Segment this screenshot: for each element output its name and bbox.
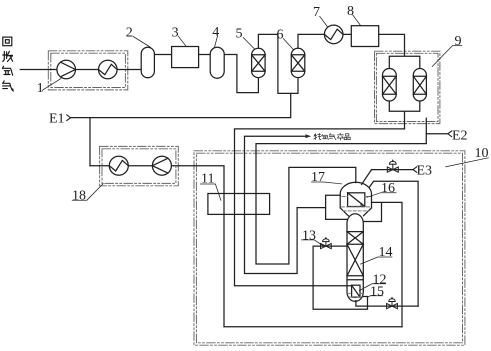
glyph qi(gas) bbox=[3, 81, 13, 91]
glyph shou bbox=[3, 51, 13, 61]
wire: recovered argon inlet to unit 1 and capsule 2 bbox=[20, 69, 141, 71]
liquid level dashes in vessel 17 bbox=[341, 197, 370, 211]
heat exchanger 11 bbox=[208, 194, 270, 215]
glyph ya(argon) bbox=[322, 135, 329, 140]
leader line 8 bbox=[353, 15, 361, 26]
wire: E3 vent from vessel 17 dome bbox=[362, 170, 413, 185]
valve 15 bbox=[387, 298, 398, 309]
glyph qi(gas) bbox=[329, 134, 336, 140]
svg-text:16: 16 bbox=[381, 181, 395, 196]
wire: through unit 18 then down and across bottom of box 10 bbox=[90, 166, 402, 327]
adsorber column right in box 9 bbox=[413, 69, 426, 102]
valve 13 bbox=[321, 238, 332, 249]
leader line 1 bbox=[42, 79, 61, 91]
reboiler insert 12 in column sump bbox=[352, 285, 360, 297]
leader line 5 bbox=[243, 38, 254, 49]
exchanger circle left in unit 18 bbox=[109, 156, 128, 175]
vessel 17 body bbox=[340, 182, 371, 216]
svg-text:17: 17 bbox=[311, 170, 325, 185]
svg-text:7: 7 bbox=[313, 5, 320, 20]
wire: column 5 top over to column 6 bottom bbox=[258, 34, 298, 93]
svg-text:15: 15 bbox=[370, 285, 384, 300]
svg-text:10: 10 bbox=[475, 146, 489, 161]
boundary box 10 (dash-dot double border) bbox=[194, 151, 465, 345]
svg-text:E1: E1 bbox=[49, 112, 65, 127]
leader line 16 bbox=[367, 193, 396, 198]
adsorber column 5 bbox=[252, 48, 266, 77]
svg-text:3: 3 bbox=[172, 25, 179, 40]
wire: capsule 2 to rect 3 bbox=[154, 54, 171, 56]
svg-text:11: 11 bbox=[201, 172, 214, 187]
rect unit 3 bbox=[172, 47, 199, 68]
leader line 11 bbox=[200, 184, 221, 200]
vertical CJK text: recovered argon gas (hand-drawn glyphs) bbox=[2, 37, 13, 91]
arrow E3 bbox=[413, 167, 417, 173]
leader line 17 bbox=[312, 182, 342, 184]
rect unit 8 bbox=[351, 26, 378, 47]
wire: E1 inlet line and riser to column 6 header bbox=[71, 93, 291, 165]
glyph ya(argon) bbox=[2, 66, 12, 75]
leader line 18 bbox=[72, 184, 103, 201]
leader line 12 bbox=[359, 284, 386, 291]
cooler circle in unit 1 bbox=[99, 60, 118, 79]
compressor circle in unit 1 bbox=[57, 60, 76, 79]
glyph pin bbox=[344, 134, 350, 140]
wire: bottom return riser up to vessel 17 side bbox=[364, 202, 403, 326]
wire: column bottoms to valve 15 bbox=[356, 301, 418, 307]
boundary box 18 (dash-dot double border) bbox=[100, 146, 179, 185]
wire: box 9 bottoms going left, down through exchanger 11 to reboiler 12 bbox=[235, 129, 405, 286]
leader line 13 bbox=[302, 240, 323, 246]
arrow head of product line bbox=[305, 134, 311, 138]
wire: box 9 columns bottom header bbox=[389, 97, 420, 129]
valve E3 bbox=[387, 160, 398, 172]
wire: pure argon product line with hairpin through exchanger 11 bbox=[245, 136, 326, 273]
leader line 14 bbox=[361, 257, 392, 264]
wire: vapor line from vessel dome right side down the right of column bbox=[370, 181, 419, 306]
capsule vessel 4 bbox=[210, 47, 224, 78]
wire: E2 line hairpin through exchanger 11 into vessel 17 top bbox=[256, 118, 448, 264]
adsorber column 6 bbox=[291, 48, 305, 77]
svg-text:18: 18 bbox=[72, 189, 86, 204]
leader line 15 bbox=[367, 296, 382, 297]
arrow E2 bbox=[448, 131, 452, 137]
svg-text:E3: E3 bbox=[417, 164, 433, 179]
boundary box 1 (dash-dot double border) bbox=[48, 51, 128, 90]
wire: capsule 4 down to column 5 bottom bbox=[224, 55, 258, 93]
svg-text:1: 1 bbox=[37, 81, 44, 96]
svg-text:14: 14 bbox=[379, 245, 393, 260]
wire: rect 8 to box 9 columns top header bbox=[379, 34, 420, 72]
capsule vessel 2 bbox=[141, 47, 154, 77]
leader line 9 bbox=[432, 46, 462, 67]
svg-text:2: 2 bbox=[126, 25, 133, 40]
svg-text:E2: E2 bbox=[452, 129, 468, 144]
adsorber column left in box 9 bbox=[383, 69, 397, 102]
tiny CJK text: pure argon product (hand-drawn glyphs) bbox=[314, 133, 350, 140]
leader line 7 bbox=[320, 16, 328, 27]
leader line 6 bbox=[283, 39, 293, 50]
svg-text:4: 4 bbox=[212, 25, 219, 40]
glyph hui bbox=[3, 37, 12, 46]
wire: rect 3 to capsule 4 bbox=[199, 54, 211, 56]
leader line 10 bbox=[446, 158, 489, 167]
arrow E1 bbox=[67, 115, 71, 121]
expander circle right in unit 18 bbox=[152, 156, 171, 175]
wire: column 6 top to exchanger 7 and rect 8 bbox=[298, 34, 351, 52]
condenser insert 16 inside vessel 17 bbox=[348, 193, 365, 207]
glyph chan bbox=[337, 133, 343, 140]
wire: column side outlet loop to valve 13 bbox=[313, 246, 367, 309]
heat exchanger circle 7 bbox=[324, 25, 343, 44]
leader line 2 bbox=[133, 36, 151, 47]
glyph chun bbox=[314, 133, 321, 139]
distillation column 14 body bbox=[347, 214, 363, 302]
boundary box 9 (dash-dot double border) bbox=[375, 51, 440, 123]
svg-text:13: 13 bbox=[302, 229, 316, 244]
svg-text:6: 6 bbox=[277, 28, 284, 43]
side pipe loop left of vessel 17 bbox=[326, 195, 348, 219]
liquid level dashes in column sump bbox=[348, 293, 363, 297]
svg-text:5: 5 bbox=[236, 27, 243, 42]
leader line 3 bbox=[178, 36, 186, 46]
svg-text:8: 8 bbox=[347, 4, 354, 19]
svg-text:9: 9 bbox=[455, 34, 462, 49]
leader line 4 bbox=[215, 36, 218, 47]
